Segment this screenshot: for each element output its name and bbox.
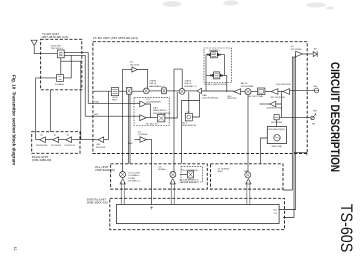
svg-text:DISCRIMINATOR: DISCRIMINATOR [153, 112, 171, 115]
svg-text:9R6L: 9R6L [128, 143, 134, 145]
svg-text:CAR: CAR [202, 94, 207, 97]
svg-text:CAR: CAR [244, 170, 249, 173]
svg-text:4L66L: 4L66L [218, 171, 223, 173]
svg-text:MC 2SCF1815: MC 2SCF1815 [271, 97, 286, 99]
svg-text:2SLDF2908: 2SLDF2908 [271, 107, 283, 109]
svg-text:HGT: HGT [94, 114, 99, 116]
svg-text:9LAMBELL: 9LAMBELL [209, 49, 221, 52]
svg-text:2SC1969 W: 2SC1969 W [51, 145, 61, 147]
svg-text:MIC: MIC [314, 86, 318, 88]
svg-text:8.38? (TM 501) OSC: 8.38? (TM 501) OSC [180, 182, 198, 184]
svg-text:BCT: BCT [274, 209, 279, 211]
svg-text:(1/2)NJM4558: (1/2)NJM4558 [147, 102, 162, 104]
svg-text:CIRCUIT DESCRIPTION: CIRCUIT DESCRIPTION [328, 62, 342, 172]
svg-text:(X58-3080-00): (X58-3080-00) [182, 125, 196, 127]
svg-text:UPC1037AB: UPC1037AB [241, 85, 254, 88]
svg-text:DA-1: DA-1 [153, 107, 159, 110]
svg-text:2SC2714: 2SC2714 [227, 98, 237, 100]
svg-text:2SC2053: 2SC2053 [96, 147, 106, 149]
svg-text:AT-1: AT-1 [183, 122, 188, 125]
svg-text:SP: SP [314, 49, 317, 51]
svg-text:TRX SW v.3: TRX SW v.3 [51, 48, 64, 50]
svg-text:VGA: VGA [94, 100, 99, 103]
svg-text:2SC2714A: 2SC2714A [252, 95, 263, 98]
svg-text:107.2MHz+j C: 107.2MHz+j C [128, 180, 141, 182]
svg-text:PB: PB [312, 124, 315, 126]
svg-text:TX-RX UNIT (X57-4570-00) (A/4): TX-RX UNIT (X57-4570-00) (A/4) [93, 36, 138, 40]
svg-text:Q8 TA7368: Q8 TA7368 [271, 121, 283, 124]
svg-text:TCXO 9LMDMMUM: TCXO 9LMDMMUM [181, 170, 198, 172]
svg-text:(X46-35XX-XX): (X46-35XX-XX) [87, 200, 108, 204]
svg-text:Q2: Q2 [67, 135, 70, 137]
svg-text:Q4: Q4 [40, 135, 43, 137]
svg-text:2PC1226M: 2PC1226M [291, 49, 302, 51]
svg-text:BANDPASS x 2: BANDPASS x 2 [149, 85, 165, 88]
svg-text:SIDE TONE: SIDE TONE [272, 146, 283, 148]
svg-text:Fig. 10 Transmitter section b: Fig. 10 Transmitter section block diagra… [12, 75, 17, 165]
svg-text:IF UNIT (X48-3710-00): IF UNIT (X48-3710-00) [205, 84, 228, 86]
svg-text:(X45-3480-00): (X45-3480-00) [32, 158, 52, 162]
svg-text:2SC2026: 2SC2026 [130, 64, 140, 66]
svg-text:(X57-4570-00) (C4): (X57-4570-00) (C4) [42, 35, 68, 39]
svg-text:(X56-4300-00)(D/3): (X56-4300-00)(D/3) [268, 129, 285, 131]
svg-text:TS-60S: TS-60S [337, 204, 356, 253]
svg-text:LN: LN [275, 213, 278, 215]
svg-text:MHz: MHz [112, 99, 117, 101]
svg-text:12: 12 [13, 247, 17, 251]
svg-text:KEY: KEY [313, 111, 318, 113]
svg-text:(1/2)4558: (1/2)4558 [138, 134, 148, 136]
svg-text:BW/SHP x 2: BW/SHP x 2 [185, 86, 198, 88]
svg-text:Q3: Q3 [54, 135, 57, 137]
svg-text:40-4MHz: 40-4MHz [55, 84, 64, 86]
svg-text:Q26 2SCF1815: Q26 2SCF1815 [276, 84, 292, 86]
svg-text:KIT: ALC IN: KIT: ALC IN [146, 122, 158, 125]
svg-text:2SC2F1815: 2SC2F1815 [207, 97, 219, 99]
svg-text:2SK2509 WP: 2SK2509 WP [36, 145, 48, 147]
svg-text:2SC2075 W: 2SC2075 W [65, 145, 75, 147]
svg-text:16.2MHz j: 16.2MHz j [158, 169, 167, 171]
svg-text:(X50-3230-00): (X50-3230-00) [95, 168, 115, 172]
